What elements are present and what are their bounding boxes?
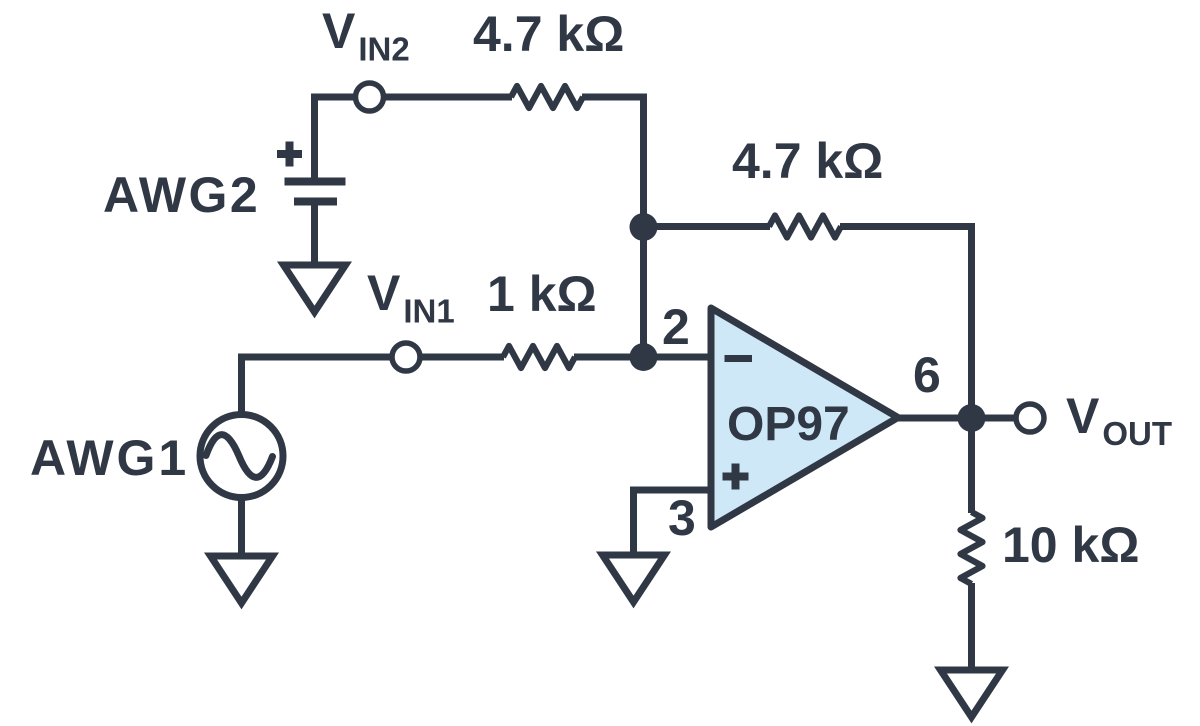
wire: AWG2 battery bottom lead to ground (311, 202, 318, 267)
op-amp U1 OP97 triangle (711, 308, 898, 527)
terminal VOUT open circle (1016, 404, 1044, 432)
battery AWG2 long plate (285, 178, 346, 186)
svg-text:AWG2: AWG2 (103, 167, 260, 223)
ground for op-amp pin 3 (603, 555, 665, 602)
svg-text:VOUT: VOUT (1066, 388, 1172, 452)
battery AWG2 short plate (294, 198, 337, 206)
node: inverting summing junction dot (top) (630, 213, 658, 241)
ground for AWG1 (211, 556, 273, 603)
source AWG1 sine wave symbol (206, 435, 273, 478)
svg-text:4.7 kΩ: 4.7 kΩ (732, 133, 883, 189)
wire: feedback branch from summing bus (644, 223, 771, 230)
svg-text:10 kΩ: 10 kΩ (1002, 517, 1139, 573)
op-amp plus input sign (723, 464, 749, 490)
ground for AWG2 (284, 265, 346, 312)
terminal VIN2 open circle (356, 83, 384, 111)
wire: AWG1 up and right to 1k (242, 357, 505, 413)
svg-text:AWG1: AWG1 (30, 430, 189, 486)
svg-text:1 kΩ: 1 kΩ (487, 266, 597, 322)
resistor 1k zigzag (503, 346, 575, 368)
wire: feedback right side down to output node (840, 227, 972, 419)
svg-text:VIN2: VIN2 (322, 3, 410, 68)
wire: 1k to inverting node and op-amp pin 2 (574, 354, 711, 361)
resistor 4.7k (feedback) zigzag (769, 216, 841, 238)
wire: op-amp pin 3 lead left and down to ground (634, 490, 712, 556)
wire: op-amp output pin 6 to VOUT terminal (893, 415, 1014, 422)
wire: 10k to ground lead (968, 583, 975, 668)
node: output junction dot (958, 404, 986, 432)
op-amp minus input sign (725, 355, 753, 362)
wire: AWG2 top lead up and right to 4.7k (315, 97, 513, 178)
resistor 10k zigzag (961, 512, 983, 584)
wire: AWG1 bottom lead to ground (238, 499, 245, 557)
ground for 10k resistor (941, 670, 1003, 717)
svg-text:2: 2 (662, 299, 690, 355)
terminal VIN1 open circle (392, 343, 420, 371)
wire: output node down to 10k (968, 418, 975, 513)
svg-text:VIN1: VIN1 (367, 265, 455, 330)
svg-text:3: 3 (668, 490, 696, 546)
battery AWG2 plus sign (277, 142, 302, 167)
wire: 4.7k to vertical bus down to inverting node (582, 97, 644, 357)
svg-text:4.7 kΩ: 4.7 kΩ (473, 6, 624, 62)
svg-text:6: 6 (913, 347, 941, 403)
svg-text:OP97: OP97 (727, 398, 850, 451)
source AWG1 sine generator circle (200, 415, 283, 498)
resistor 4.7k (input from VIN2) zigzag (511, 86, 583, 108)
node: inverting input junction dot (630, 343, 658, 371)
